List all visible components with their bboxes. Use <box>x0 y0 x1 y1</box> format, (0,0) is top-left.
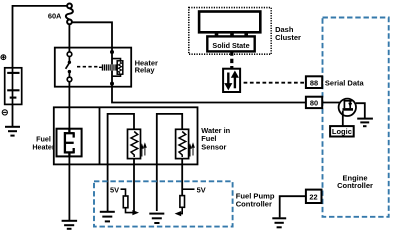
wire sensor2 signal down through 5V resistor <box>181 159 183 196</box>
dashed serial data wire <box>244 82 306 84</box>
wire pullup 1 to signal node <box>126 208 134 213</box>
svg-text:22: 22 <box>309 193 317 202</box>
relay coil resistor box <box>117 61 123 74</box>
wire fuse down to relay switch <box>68 24 70 52</box>
wire pullup 2 output <box>180 207 182 213</box>
relay contact dot upper <box>68 61 71 64</box>
relay box <box>55 48 131 87</box>
svg-text:5V: 5V <box>197 185 206 194</box>
fuel pump controller dashed box <box>94 181 233 226</box>
wire solid state down (thick dashed) <box>230 51 233 68</box>
battery B+ <box>5 68 22 105</box>
sensor resistor 1 <box>128 129 141 158</box>
svg-text:Relay: Relay <box>135 66 156 75</box>
wire pin80 to transistor <box>322 102 339 104</box>
wire transistor to logic box <box>342 111 344 126</box>
water in fuel sensor loop 2 <box>157 114 182 211</box>
water in fuel sensor loop 1 <box>108 114 134 211</box>
junction dot relay coil top <box>110 50 114 54</box>
connector stubs display to solid state <box>217 32 247 36</box>
serial data arrows box <box>223 69 240 92</box>
svg-text:88: 88 <box>310 78 318 87</box>
transistor driver <box>339 99 356 116</box>
svg-text:Logic: Logic <box>332 127 352 136</box>
wire relay coil to ECM pin 80 <box>112 87 306 103</box>
arrow up <box>232 72 238 89</box>
relay contact dot lower <box>68 70 71 73</box>
pin 80 <box>306 97 322 108</box>
svg-text:Cluster: Cluster <box>275 33 301 42</box>
sensor 2 variable arrows <box>189 144 194 157</box>
wire 5V supply 1 to resistor <box>121 189 126 196</box>
ground pin22 <box>272 218 286 227</box>
svg-text:Controller: Controller <box>236 200 272 209</box>
wire fuse to relay branch <box>72 22 112 47</box>
wire sensor1 signal down <box>133 159 135 214</box>
engine controller dashed box <box>323 18 389 217</box>
svg-text:60A: 60A <box>48 11 62 20</box>
pin 22 <box>306 190 322 203</box>
svg-text:Heater: Heater <box>32 142 55 151</box>
sensor 1 variable arrows <box>141 144 146 157</box>
wire transistor to ground <box>356 103 365 118</box>
wire pin22 to ground <box>280 196 306 217</box>
logic box <box>330 126 354 136</box>
battery minus terminal mark <box>2 110 7 115</box>
relay actuation dashed link <box>77 66 100 68</box>
sensor resistor 2 <box>176 129 189 158</box>
transistor emitter arrow <box>348 103 352 108</box>
resistor 5V pullup 1 <box>123 196 128 208</box>
wire relay coil vertical <box>111 48 113 65</box>
battery plus terminal mark <box>1 55 6 60</box>
arrow pullup 2 output <box>175 211 182 216</box>
wire 5V supply 2 feed <box>182 188 194 190</box>
sensor resistor 1 zigzag <box>131 132 138 158</box>
junction dot relay coil bottom <box>110 82 114 86</box>
ground sensor loop1 <box>100 212 115 222</box>
svg-text:Controller: Controller <box>337 181 373 190</box>
relay coil resistor zigzag <box>118 62 121 73</box>
wire battery to ground <box>12 104 14 126</box>
wire fuel heater to ground <box>68 156 70 220</box>
relay coil bracket wires <box>112 59 121 61</box>
assembly divider <box>99 107 101 164</box>
resistor 5V pullup 2 <box>180 196 185 208</box>
ground fuel heater <box>62 221 78 229</box>
fuse 60A <box>66 4 73 25</box>
relay switch <box>66 52 72 82</box>
ground transistor <box>357 119 373 127</box>
dash cluster dotted box <box>189 8 271 55</box>
fuel heater + water sensor assembly box <box>54 107 198 164</box>
wire top horizontal from battery to fuse <box>13 6 68 68</box>
dash cluster display <box>199 12 260 33</box>
svg-text:Serial Data: Serial Data <box>325 79 365 88</box>
svg-text:80: 80 <box>310 98 318 107</box>
pin 88 <box>306 76 322 88</box>
svg-text:5V: 5V <box>110 185 119 194</box>
svg-text:Solid State: Solid State <box>212 41 249 50</box>
arrow pullup 1 into sensor signal <box>132 210 139 215</box>
sensor resistor 2 zigzag <box>179 132 186 158</box>
svg-text:Sensor: Sensor <box>201 143 226 152</box>
fuel heater element <box>57 129 82 157</box>
solid state box <box>207 36 254 51</box>
ground sensor loop2 <box>149 214 164 223</box>
wire relay switch down to fuel heater <box>68 82 70 129</box>
ground battery <box>5 127 20 136</box>
relay coil solenoid block <box>99 64 117 71</box>
arrow down <box>225 73 231 90</box>
